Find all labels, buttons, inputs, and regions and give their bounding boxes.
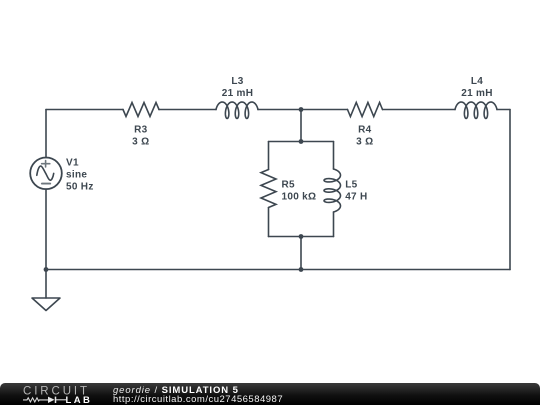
parallel box top edge (269, 141, 334, 143)
svg-text:100 kΩ: 100 kΩ (282, 192, 317, 203)
svg-text:LAB: LAB (66, 395, 93, 405)
logo wire glyph with resistor and diode (23, 398, 66, 402)
svg-text:3 Ω: 3 Ω (132, 137, 149, 148)
svg-text:L4: L4 (471, 76, 483, 87)
svg-text:50 Hz: 50 Hz (66, 182, 94, 193)
ground symbol (32, 298, 60, 311)
wire L3 to R4 (258, 109, 348, 111)
inductor L4 (455, 102, 497, 119)
V1 plus sign (42, 161, 50, 167)
svg-text:R4: R4 (358, 125, 372, 136)
wire right vertical (509, 110, 511, 270)
svg-text:sine: sine (66, 169, 87, 180)
wire top-left horizontal (46, 109, 123, 111)
inductor L5 (324, 169, 341, 212)
parallel box left upper wire (268, 142, 270, 170)
parallel box bottom edge (269, 236, 334, 238)
resistor R4 (348, 103, 383, 117)
node dot box top (299, 139, 304, 144)
inductor L3 (216, 102, 258, 119)
node dot bottom wire junction (299, 267, 304, 272)
V1 sine symbol (37, 166, 54, 180)
wire R3 to L3 (159, 109, 216, 111)
resistor R5 (261, 170, 276, 208)
node dot box bottom (299, 234, 304, 239)
node dot ground junction (44, 267, 49, 272)
svg-text:47 H: 47 H (345, 192, 367, 203)
footer bar (0, 383, 540, 405)
wire branch bottom (300, 237, 302, 270)
svg-text:3 Ω: 3 Ω (356, 137, 373, 148)
wire bottom horizontal (46, 269, 510, 271)
parallel box right lower wire (333, 212, 335, 237)
wire R4 to L4 (383, 109, 456, 111)
svg-text:L3: L3 (231, 76, 243, 87)
CircuitLab logo (22, 384, 102, 410)
voltage source V1 circle (30, 158, 62, 190)
parallel box left lower wire (268, 208, 270, 237)
svg-text:R3: R3 (134, 125, 148, 136)
node dot top branch junction (299, 107, 304, 112)
resistor R3 (123, 103, 159, 117)
svg-text:L5: L5 (345, 180, 357, 191)
wire branch top (300, 110, 302, 142)
svg-text:21 mH: 21 mH (222, 88, 254, 99)
wire ground stem (45, 270, 47, 299)
parallel box right upper wire (333, 142, 335, 170)
svg-text:V1: V1 (66, 157, 79, 168)
wire L4 to top-right corner (497, 109, 510, 111)
svg-text:R5: R5 (282, 180, 296, 191)
logo diode (48, 397, 55, 403)
svg-text:21 mH: 21 mH (461, 88, 493, 99)
V1 minus sign (42, 183, 50, 185)
wire left vertical top (to V1) (45, 110, 47, 158)
wire V1 bottom to ground node (45, 189, 47, 269)
